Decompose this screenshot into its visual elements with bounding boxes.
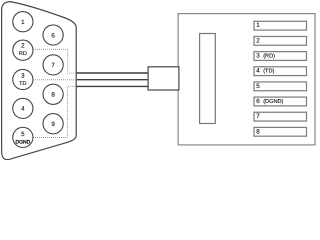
svg-text:RD: RD bbox=[19, 51, 27, 57]
svg-text:1: 1 bbox=[21, 19, 25, 26]
svg-text:2: 2 bbox=[21, 42, 25, 49]
svg-text:(DGND): (DGND) bbox=[263, 98, 283, 105]
svg-text:4: 4 bbox=[256, 68, 260, 75]
svg-text:3: 3 bbox=[256, 53, 260, 60]
svg-text:6: 6 bbox=[256, 98, 260, 105]
svg-text:7: 7 bbox=[51, 62, 55, 69]
svg-text:7: 7 bbox=[256, 113, 260, 120]
svg-text:(RD): (RD) bbox=[263, 52, 275, 59]
svg-text:9: 9 bbox=[51, 121, 55, 128]
svg-text:8: 8 bbox=[51, 92, 55, 99]
svg-text:4: 4 bbox=[21, 106, 25, 113]
svg-text:DGND: DGND bbox=[15, 140, 30, 146]
svg-text:(TD): (TD) bbox=[263, 68, 274, 75]
svg-text:5: 5 bbox=[256, 83, 260, 90]
svg-text:TD: TD bbox=[19, 81, 26, 87]
svg-text:5: 5 bbox=[21, 131, 25, 138]
svg-text:8: 8 bbox=[256, 128, 260, 135]
svg-text:6: 6 bbox=[51, 32, 55, 39]
svg-text:3: 3 bbox=[21, 72, 25, 79]
svg-text:2: 2 bbox=[256, 37, 260, 44]
svg-text:1: 1 bbox=[256, 22, 260, 29]
